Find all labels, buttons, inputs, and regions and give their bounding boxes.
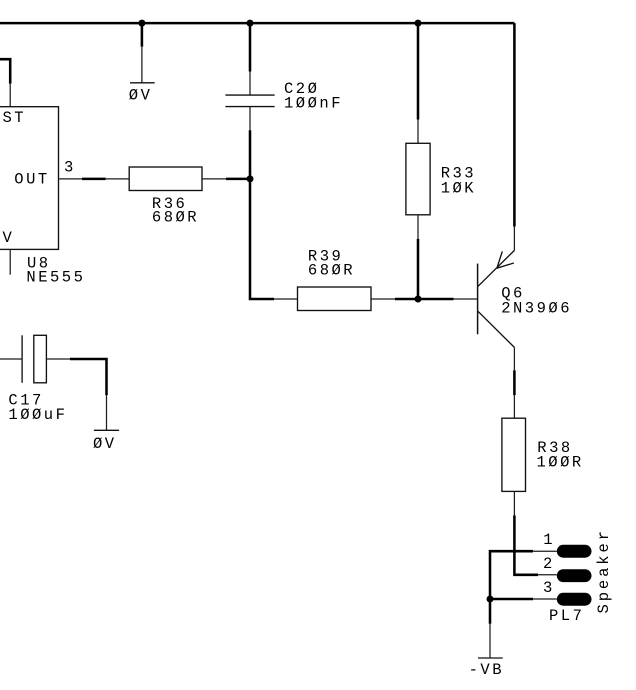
- transistor Q6 base bar: [477, 264, 479, 335]
- wire R33 to R39 row: [417, 239, 420, 299]
- wire R36 to junction: [226, 178, 250, 181]
- svg-text:-VB: -VB: [469, 661, 504, 679]
- node junction top rail / R33 column: [415, 20, 422, 27]
- wire to -VB: [489, 599, 492, 624]
- ground 0V lead: [141, 47, 143, 83]
- wire top rail: [0, 22, 514, 25]
- svg-text:3: 3: [543, 579, 555, 597]
- resistor R33 top stub: [417, 120, 419, 144]
- ground -VB bar: [478, 657, 503, 659]
- resistor R33 bottom stub: [417, 215, 419, 239]
- resistor R38 bottom stub: [513, 491, 515, 515]
- svg-text:1ØØnF: 1ØØnF: [284, 94, 343, 112]
- node junction R33 / base wire: [415, 296, 422, 303]
- connector PL7 pad 1: [557, 545, 592, 558]
- resistor R36 left stub: [106, 178, 130, 180]
- node junction R36 output: [247, 175, 254, 182]
- wire emitter pin stub: [513, 227, 515, 251]
- connector PL7 pad 2: [557, 569, 592, 582]
- svg-text:PL7: PL7: [549, 607, 584, 625]
- transistor Q6 emitter: [478, 250, 514, 286]
- pin ST wire: [0, 59, 10, 83]
- svg-text:1ØØR: 1ØØR: [537, 454, 584, 472]
- pin Q6 base stub: [454, 298, 478, 300]
- svg-text:1ØK: 1ØK: [441, 180, 476, 198]
- svg-text:3: 3: [64, 159, 76, 177]
- pin 2 stub: [538, 574, 557, 576]
- wire pin3 net: [490, 598, 533, 601]
- connector PL7 pad 3: [557, 593, 592, 606]
- pin C17 right stub: [46, 358, 70, 360]
- ground 0V bar: [130, 82, 155, 84]
- wire emitter vertical (net to Q6 emitter): [513, 23, 516, 226]
- wire pin1 net: [490, 551, 533, 599]
- svg-text:68ØR: 68ØR: [308, 262, 355, 280]
- pin Q6 collector stub: [513, 347, 515, 370]
- svg-text:ØV: ØV: [93, 435, 117, 453]
- wire C20 column down to R39 row: [250, 130, 274, 299]
- svg-text:NE555: NE555: [26, 269, 85, 287]
- ground -VB lead: [489, 624, 491, 658]
- resistor R39: [298, 287, 372, 311]
- resistor R39 right stub: [371, 298, 395, 300]
- resistor R36: [129, 167, 202, 191]
- capacitor C20: [225, 95, 274, 107]
- svg-text:ST: ST: [3, 109, 27, 127]
- capacitor C17 right plate box: [34, 335, 47, 383]
- node junction pin3 / -VB: [487, 596, 494, 603]
- svg-text:2N39Ø6: 2N39Ø6: [501, 300, 572, 318]
- transistor Q6 collector: [478, 311, 514, 347]
- svg-text:68ØR: 68ØR: [152, 209, 199, 227]
- node junction top rail / C20 column: [247, 20, 254, 27]
- resistor R39 left stub: [274, 298, 297, 300]
- wire R39 to Q6 base: [395, 298, 454, 301]
- resistor R38 top stub: [513, 395, 515, 418]
- wire R33 top net: [417, 23, 420, 119]
- wire into C17: [0, 358, 22, 360]
- wire OUT to R36: [82, 178, 106, 181]
- svg-text:OUT: OUT: [14, 171, 49, 189]
- node junction top rail / 0V drop: [138, 20, 145, 27]
- svg-text:ØV: ØV: [129, 87, 153, 105]
- pin ST stub: [9, 84, 11, 107]
- wire collector to R38: [513, 370, 516, 395]
- svg-text:Speaker: Speaker: [595, 528, 613, 613]
- svg-text:1ØØuF: 1ØØuF: [8, 406, 67, 424]
- wire C20 bottom pin stub: [249, 107, 251, 130]
- svg-text:V: V: [3, 229, 15, 247]
- pin 3 stub: [533, 598, 557, 600]
- pin 1 stub: [533, 550, 557, 552]
- pin V stub below IC: [9, 249, 11, 274]
- wire 0V drop: [141, 23, 144, 47]
- capacitor C17 left plate: [21, 335, 23, 383]
- wire C20 top net: [249, 23, 252, 71]
- svg-text:2: 2: [543, 555, 555, 573]
- wire C17 to 0V: [70, 359, 107, 395]
- transistor Q6 emitter arrow (PNP): [497, 251, 514, 268]
- wire C20 top pin stub: [249, 72, 251, 95]
- resistor R36 right stub: [202, 178, 226, 180]
- wire R38 to connector pin 2: [514, 515, 538, 574]
- resistor R33: [406, 143, 430, 215]
- ground 0V bar (C17): [94, 429, 119, 431]
- op-amp U8 box (NE555 IC): [0, 107, 59, 250]
- svg-text:1: 1: [543, 531, 555, 549]
- ground 0V lead (C17): [106, 395, 108, 430]
- pin 3 OUT stub: [59, 178, 83, 180]
- resistor R38: [502, 418, 526, 491]
